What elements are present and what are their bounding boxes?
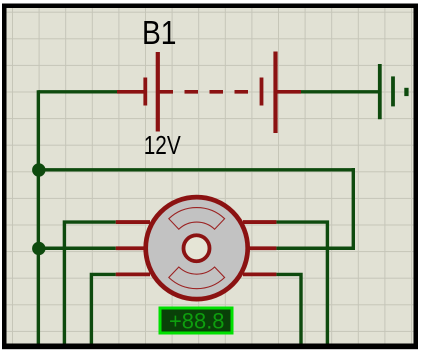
battery B1 cell2 short plate	[260, 78, 264, 106]
battery B1 positive lead	[276, 90, 302, 94]
node junction dot lower	[32, 242, 45, 255]
green cell short plate	[391, 76, 395, 106]
motor body	[146, 197, 248, 299]
wire: left rail vertical	[37, 90, 40, 343]
motor right lead bottom	[243, 272, 276, 276]
motor right lead top	[243, 220, 276, 224]
battery B1 cell1 short plate	[143, 78, 147, 106]
svg-text:12V: 12V	[144, 130, 182, 160]
wire: battery negative row horizontal	[38, 90, 117, 93]
wire: middle-left lead from lower junction	[38, 247, 115, 250]
node junction dot upper	[32, 163, 45, 176]
motor commutator arc bottom	[169, 267, 225, 289]
green cell long plate	[378, 64, 382, 119]
motor left lead middle	[116, 246, 150, 250]
motor right lead middle	[243, 246, 276, 250]
battery B1 negative lead	[117, 90, 144, 94]
wire: bottom-left lead and drop to bottom	[91, 274, 115, 343]
speed display box	[160, 308, 232, 333]
wire: bottom-right lead and drop to bottom	[276, 274, 301, 343]
wire: top horizontal from junction to right side	[38, 168, 353, 171]
wire: top-right lead and drop to bottom	[276, 222, 327, 343]
battery B1 dashed link	[160, 90, 259, 94]
svg-text:+88.8: +88.8	[169, 309, 225, 334]
motor left lead bottom	[116, 272, 150, 276]
wire: right vertical down then left to middle lead	[276, 168, 353, 248]
green cell stub	[404, 88, 408, 96]
motor commutator arc top	[169, 208, 225, 230]
motor left lead top	[116, 220, 150, 224]
battery B1 cell2 long plate	[273, 52, 277, 134]
motor hub ring	[184, 235, 210, 261]
wire: battery positive to green cell	[301, 90, 378, 93]
battery B1 cell1 long plate	[156, 52, 160, 132]
wire: top-left lead and drop to bottom	[64, 222, 115, 343]
svg-text:B1: B1	[142, 14, 177, 51]
